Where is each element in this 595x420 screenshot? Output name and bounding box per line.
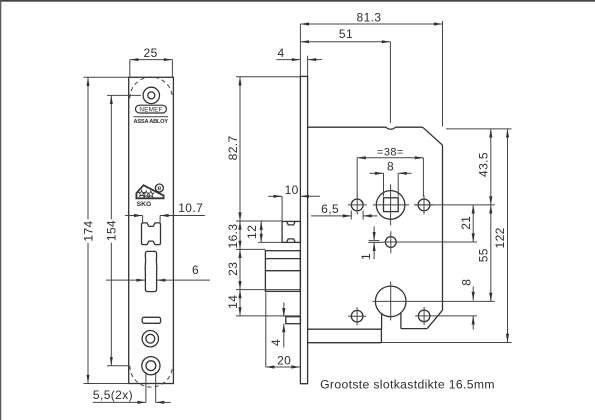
dimension 10.7 latch opening width	[125, 215, 143, 217]
dimension 23 deadbolt height	[239, 249, 241, 289]
dashed arc top (rounded faceplate option)	[130, 77, 173, 98]
bottom right fixing hole	[418, 310, 430, 322]
dimension 82.7 top to latch	[239, 77, 241, 221]
dimension =38= hole spacing	[357, 157, 423, 159]
svg-text:122: 122	[493, 227, 507, 248]
dimension 1 pin hole offset	[373, 226, 375, 240]
deadbolt side view	[265, 251, 300, 292]
cylinder fixing hole	[142, 331, 158, 347]
svg-text:12: 12	[245, 225, 259, 239]
svg-text:6: 6	[192, 263, 199, 277]
svg-text:=38=: =38=	[377, 146, 404, 158]
SKG certification mark	[136, 185, 163, 198]
bottom screw hole	[142, 357, 160, 375]
svg-text:14: 14	[226, 295, 240, 309]
dimension 20 deadbolt throw	[266, 366, 300, 368]
dimension 8 follower square	[370, 172, 384, 174]
svg-text:51: 51	[339, 27, 353, 41]
svg-text:20: 20	[277, 353, 291, 367]
lock case bottom edge right of keyway	[401, 328, 427, 330]
lock case bottom right chamfer	[427, 310, 442, 328]
dimension 25 faceplate width	[130, 59, 173, 61]
dimension 154 screw hole distance	[110, 95, 112, 219]
svg-text:4: 4	[277, 46, 284, 60]
spindle follower hole	[376, 191, 405, 220]
lock case top right chamfer	[423, 127, 443, 145]
dimension 4 faceplate thickness	[276, 59, 300, 61]
svg-text:NEMEF: NEMEF	[139, 107, 162, 114]
dimension 12 latch bolt height	[260, 221, 262, 242]
lock case top edge with backset notch	[308, 126, 387, 128]
lock case bottom edge left of keyway	[308, 328, 382, 330]
right side extension lines	[446, 128, 512, 130]
faceplate side view	[300, 76, 307, 383]
cylinder keyway right side	[400, 313, 402, 329]
dashed arc bottom (rounded faceplate option)	[130, 366, 173, 387]
dimension 122 case height	[507, 129, 509, 343]
svg-text:SKG: SKG	[137, 201, 152, 208]
latch opening in faceplate	[142, 223, 161, 245]
left M5 hole	[351, 199, 363, 211]
dimension 81.3 overall depth	[300, 23, 442, 25]
svg-text:10: 10	[285, 183, 299, 197]
svg-text:43.5: 43.5	[477, 152, 491, 177]
svg-text:6,5: 6,5	[321, 202, 339, 216]
dimension 43.5 top to follower	[490, 129, 492, 205]
svg-text:1: 1	[359, 253, 373, 260]
svg-text:23: 23	[226, 262, 240, 276]
bottom screw boss side view	[286, 317, 301, 324]
lock case bottom tab	[308, 342, 382, 344]
SKG star 3	[148, 191, 154, 197]
cylinder screw slot	[142, 317, 160, 323]
svg-text:4: 4	[269, 339, 283, 346]
top screw hole	[143, 87, 159, 103]
lock case right edge	[442, 145, 444, 310]
svg-text:21: 21	[459, 216, 473, 230]
dimension 16.3 latch height zone	[239, 221, 241, 249]
svg-text:10.7: 10.7	[178, 201, 203, 215]
SKG star 2	[143, 191, 149, 197]
deadbolt opening in faceplate	[145, 251, 157, 291]
faceplate front view outline	[129, 77, 174, 383]
dimension 4 screw boss height	[283, 303, 285, 317]
svg-text:81.3: 81.3	[357, 11, 382, 25]
svg-text:154: 154	[105, 220, 119, 241]
scan border top	[0, 0, 595, 2]
ASSA ABLOY logo	[133, 116, 168, 118]
dimension 6 deadbolt opening width	[106, 279, 145, 281]
svg-text:8: 8	[387, 160, 394, 174]
svg-text:82.7: 82.7	[226, 135, 240, 160]
svg-text:5,5(2x): 5,5(2x)	[93, 388, 133, 402]
svg-text:55: 55	[476, 248, 490, 262]
dimension 21 follower to pin hole	[472, 205, 474, 242]
svg-text:8: 8	[459, 279, 473, 286]
svg-text:Grootste slotkastdikte 16.5mm: Grootste slotkastdikte 16.5mm	[320, 377, 495, 391]
right M5 hole	[418, 199, 430, 211]
scan border left	[0, 0, 1, 420]
svg-text:16.3: 16.3	[226, 224, 240, 249]
dimension 174 faceplate height	[87, 77, 89, 219]
euro cylinder hole	[375, 286, 406, 317]
cylinder keyway left side	[381, 314, 383, 329]
svg-text:R: R	[158, 186, 162, 192]
svg-text:25: 25	[144, 46, 158, 60]
dimension 8 cylinder to fixing hole	[472, 287, 474, 301]
NEMEF logo	[136, 105, 167, 113]
latch bolt side view	[282, 221, 300, 242]
lower pin hole	[385, 237, 396, 248]
svg-text:ASSA ABLOY: ASSA ABLOY	[134, 119, 169, 125]
registered trademark symbol	[155, 184, 163, 192]
dimension 14 deadbolt to screw hole	[239, 290, 241, 316]
bottom left fixing hole	[351, 310, 363, 322]
dimension 55 follower to cylinder	[490, 205, 492, 302]
svg-text:174: 174	[81, 220, 95, 241]
dimension 51 backset	[300, 41, 390, 43]
SKG star 1	[138, 190, 144, 196]
dimension 10 latch protrusion	[268, 195, 282, 197]
